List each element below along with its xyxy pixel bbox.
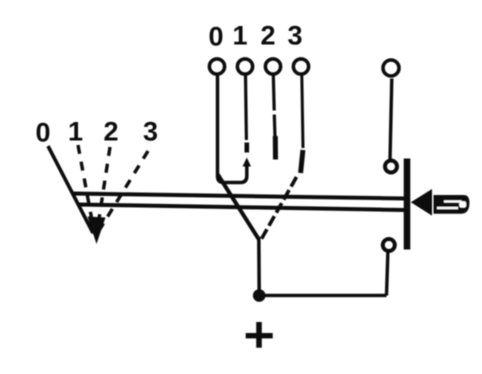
contact finger 1 tip dash [245, 143, 250, 153]
fixed contact circle lower (right switch) [383, 239, 395, 251]
wiper arm position 1 (left wafer, dashed) [78, 145, 95, 234]
actuator shaft end notch [459, 201, 466, 207]
svg-text:2: 2 [103, 117, 118, 147]
mechanical link lower line [78, 205, 406, 211]
contact finger 0 hook arrowhead [243, 158, 251, 167]
junction dot [253, 289, 266, 302]
wiper dashed arm (middle wafer) [260, 177, 297, 242]
terminal circle 1 [237, 59, 252, 74]
svg-text:1: 1 [232, 21, 247, 51]
actuator shaft slit upper [444, 200, 462, 202]
svg-text:3: 3 [287, 21, 302, 51]
wire upper right [390, 79, 392, 161]
wiper arm position 2 (left wafer, dashed) [97, 147, 110, 232]
svg-text:1: 1 [68, 117, 83, 147]
contact finger 0 (J hook) [218, 75, 247, 183]
wiper arm position 3 (left wafer, dashed) [100, 151, 148, 229]
contact finger 3 [302, 75, 303, 149]
terminal circle 2 [265, 59, 280, 74]
mechanical link upper line [72, 194, 405, 199]
contact finger 3 tip [301, 150, 303, 173]
actuator arrowhead [411, 189, 432, 216]
wire bottom riser [387, 252, 388, 296]
terminal circle 0 [209, 59, 224, 74]
wiper solid arm (middle wafer) [218, 175, 259, 240]
svg-text:2: 2 [260, 21, 275, 51]
actuator bar (right switch) [404, 159, 411, 250]
wire bottom horizontal [259, 294, 386, 297]
terminal circle top right [383, 60, 399, 76]
actuator shaft slit lower [437, 207, 458, 209]
svg-text:3: 3 [143, 117, 158, 147]
actuator shaft body [434, 195, 470, 214]
wiper arrowhead (left wafer) [88, 217, 106, 245]
svg-text:0: 0 [35, 118, 50, 148]
wiper arm position 0 (left wafer, solid) [48, 146, 93, 233]
svg-text:0: 0 [208, 22, 223, 52]
contact finger 2 upper [272, 75, 276, 111]
contact finger 2 tip [273, 136, 278, 160]
contact finger 2 lower [273, 115, 277, 138]
contact finger 1 [244, 75, 248, 141]
wiper common lead [257, 237, 261, 293]
terminal circle 3 [293, 59, 308, 74]
fixed contact circle upper (right switch) [385, 161, 397, 173]
plus terminal (battery +) [246, 333, 273, 338]
